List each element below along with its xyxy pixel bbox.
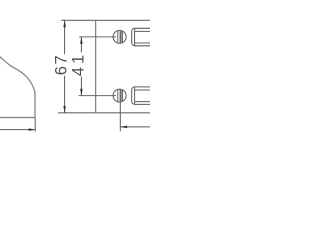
bottom screw slot shading xyxy=(120,89,122,102)
bottom screw slot lines xyxy=(120,89,122,102)
top screw head circle xyxy=(113,30,126,43)
bottom screw inner chord line xyxy=(117,89,119,101)
top cylinder body (cut at right edge) xyxy=(132,28,158,46)
bottom cylinder silhouette lines xyxy=(135,90,150,102)
left view width dimension line (cut at left edge) xyxy=(0,129,35,131)
top screw slot lines xyxy=(120,30,122,43)
right front view: left edge xyxy=(95,20,97,113)
bottom cylinder body (cut at right edge) xyxy=(132,87,158,105)
svg-text:67: 67 xyxy=(52,54,70,76)
right front view: top edge / extension line for 67 xyxy=(61,19,150,21)
bottom cylinder face line xyxy=(134,87,136,104)
bottom-right extension line from screw xyxy=(119,102,121,131)
top cylinder silhouette lines xyxy=(135,31,150,43)
top screw inner chord line xyxy=(117,31,119,43)
left view extension line xyxy=(34,118,36,132)
left-pointing arrowhead xyxy=(120,126,127,128)
right-pointing arrowhead xyxy=(29,128,36,131)
bottom-right dimension line (cut at right edge) xyxy=(120,126,150,128)
top screw centerline xyxy=(79,36,116,38)
left view bottom edge xyxy=(0,117,36,119)
svg-text:41: 41 xyxy=(70,52,88,76)
right front view: bottom edge / extension line for 67 xyxy=(58,112,150,114)
top cylinder face line xyxy=(134,29,136,46)
41 down arrowhead xyxy=(80,89,83,96)
dimension 41 line (with text gap) xyxy=(80,37,82,96)
41 up arrowhead xyxy=(80,37,83,44)
dimension 67 line (with text gap) xyxy=(64,20,66,113)
left side-profile view: curved outline xyxy=(0,57,35,118)
67 up arrowhead xyxy=(63,20,66,27)
67 down arrowhead xyxy=(63,106,66,113)
bottom screw head circle xyxy=(113,89,126,102)
bottom screw centerline xyxy=(79,95,116,97)
top screw slot shading xyxy=(120,31,122,44)
